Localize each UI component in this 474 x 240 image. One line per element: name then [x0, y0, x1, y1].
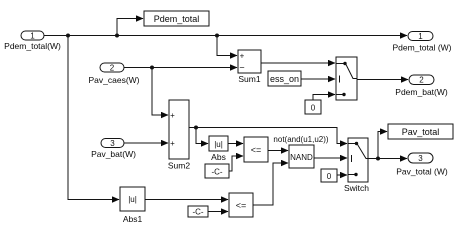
inport 1	[21, 31, 44, 41]
inport 3	[101, 139, 124, 149]
svg-text:ess_on: ess_on	[270, 74, 299, 84]
svg-text:Pdem_total (W): Pdem_total (W)	[392, 43, 451, 53]
wire in2 to Sum1 minus input	[124, 67, 237, 69]
svg-text:Abs: Abs	[211, 152, 226, 162]
svg-text:−: −	[239, 63, 244, 73]
wire branch to Abs	[196, 128, 208, 144]
sum block Sum2	[169, 100, 189, 159]
wire constant 0 to lower switch input 3	[337, 174, 347, 176]
junction on in2 wire (branch to Sum2)	[150, 66, 154, 70]
wire Abs1 to lower relational operator	[145, 199, 228, 201]
svg-text:+: +	[170, 139, 175, 148]
wire lower switch output to outport 3	[368, 158, 407, 160]
svg-text:0: 0	[327, 172, 332, 181]
svg-text:Pdem_total(W): Pdem_total(W)	[4, 41, 61, 51]
svg-text:<=: <=	[236, 201, 247, 211]
svg-text:Switch: Switch	[344, 183, 369, 193]
junction on switch output (branch to goto Pav_total)	[376, 157, 380, 161]
abs block Abs1	[120, 187, 145, 211]
wire in1 main line to outport 1	[44, 35, 407, 37]
svg-text:Pav_bat(W): Pav_bat(W)	[91, 149, 136, 159]
svg-text:0: 0	[311, 104, 316, 113]
goto block Pdem_total	[144, 11, 209, 26]
junction on main line (branch to Sum1)	[215, 34, 219, 38]
svg-text:|u|: |u|	[128, 195, 137, 204]
svg-text:NAND: NAND	[290, 153, 313, 162]
sum block Sum1	[238, 50, 261, 73]
from tag ess_on	[268, 71, 301, 86]
relational operator <= (upper)	[244, 137, 268, 162]
svg-text:Pav_total: Pav_total	[402, 127, 440, 137]
wire branch to goto Pav_total	[378, 132, 387, 159]
constant -C- (upper)	[205, 164, 229, 178]
wire branch to goto Pdem_total	[117, 19, 143, 36]
svg-text:Pdem_total: Pdem_total	[154, 14, 200, 24]
wire -C- to relational operator input 2	[229, 156, 243, 171]
wire branch to Sum1 plus input	[217, 36, 237, 56]
constant 0 (lower)	[321, 169, 337, 182]
svg-text:2: 2	[419, 76, 424, 85]
wire in3 to Sum2 input 2	[124, 142, 168, 144]
svg-text:Sum1: Sum1	[238, 74, 260, 84]
svg-text:+: +	[170, 111, 175, 120]
constant 0 (upper)	[305, 100, 321, 114]
svg-text:-C-: -C-	[211, 168, 222, 177]
constant -C- (lower)	[188, 206, 208, 217]
wire lower relational operator to NAND input 2	[253, 163, 288, 205]
outport 2	[409, 75, 434, 85]
svg-text:2: 2	[110, 64, 115, 73]
svg-text:|u|: |u|	[214, 140, 223, 149]
junction on main line (branch to goto Pdem_total)	[115, 34, 119, 38]
switch block (upper)	[336, 57, 357, 100]
svg-text:1: 1	[418, 32, 423, 41]
wire long branch from main line down to Abs1	[68, 36, 119, 200]
svg-text:Pdem_bat(W): Pdem_bat(W)	[395, 87, 448, 97]
wire branch in2 to Sum2 input 1	[152, 68, 168, 116]
junction on main line (branch to Abs1)	[66, 34, 70, 38]
wire ess_on to upper switch input 2	[301, 78, 335, 80]
outport 3	[408, 153, 433, 163]
svg-text:Sum2: Sum2	[168, 161, 190, 171]
wire Abs to relational operator	[228, 143, 243, 145]
svg-text:Pav_total (W): Pav_total (W)	[396, 167, 448, 177]
abs block Abs	[209, 136, 228, 151]
svg-text:Abs1: Abs1	[123, 214, 143, 224]
svg-text:not(and(u1,u2)): not(and(u1,u2))	[273, 135, 328, 144]
svg-text:1: 1	[30, 32, 35, 41]
wire relational operator to NAND input 1	[268, 150, 288, 152]
logic block NAND	[289, 145, 314, 168]
svg-text:3: 3	[418, 154, 423, 163]
junction on Sum2 output (branch to Abs)	[194, 126, 198, 130]
wire Sum1 output to upper switch input 1	[261, 62, 335, 64]
wire NAND output to lower switch input 2	[314, 157, 347, 159]
switch block Switch (lower)	[348, 138, 368, 182]
inport 2	[100, 63, 124, 73]
svg-text:-C-: -C-	[192, 208, 203, 217]
goto block Pav_total	[388, 124, 453, 139]
svg-text:<=: <=	[251, 145, 262, 155]
wire lower -C- to lower relational operator input 2	[208, 211, 228, 213]
wire upper switch output to outport 2	[357, 79, 408, 81]
svg-text:+: +	[240, 52, 245, 61]
svg-text:3: 3	[110, 139, 115, 148]
relational operator <= (lower)	[229, 193, 253, 217]
svg-text:Pav_caes(W): Pav_caes(W)	[88, 75, 139, 85]
wire constant 0 to upper switch input 3	[313, 95, 335, 101]
wire Sum2 output to lower switch input 1	[189, 128, 347, 144]
outport 1	[408, 32, 433, 42]
